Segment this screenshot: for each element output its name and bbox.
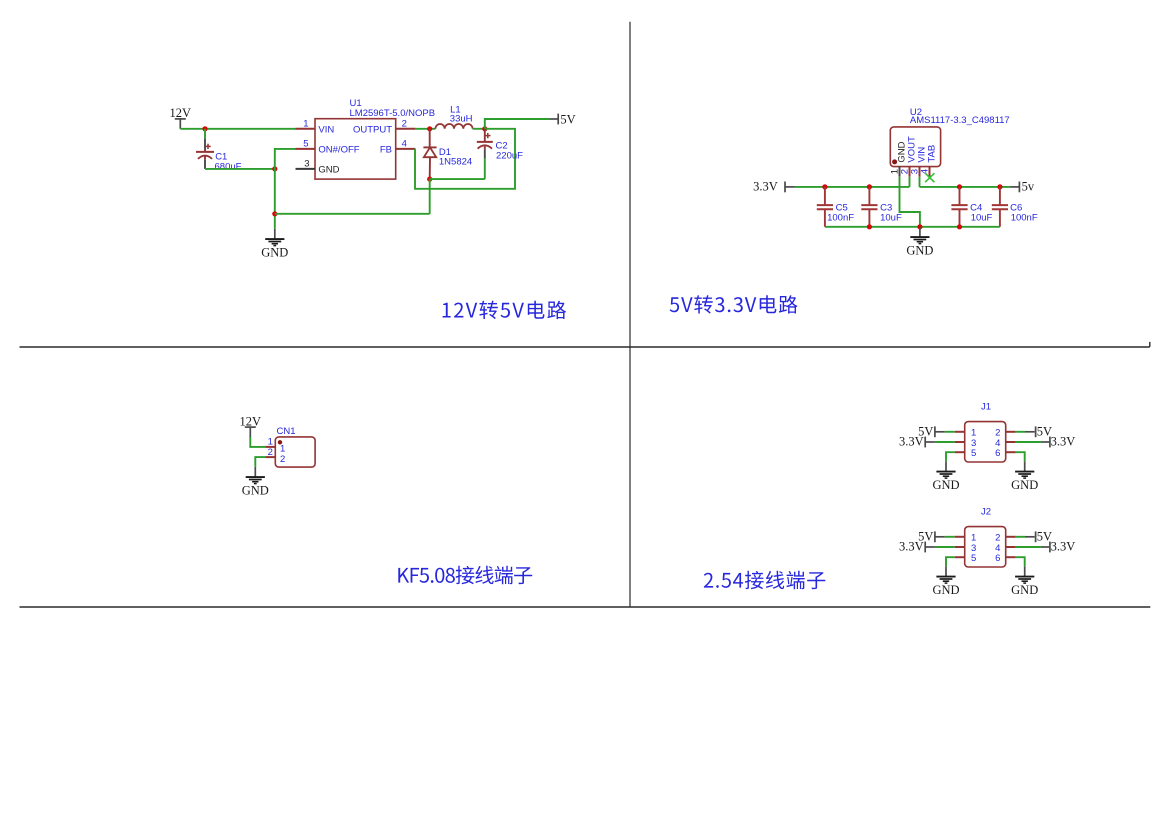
svg-text:12V: 12V [170,106,192,120]
ground J2 right [1011,566,1038,597]
svg-text:680uF: 680uF [215,161,242,172]
svg-text:OUTPUT: OUTPUT [353,124,392,135]
wire 3.3V bus [795,186,910,188]
svg-text:VIN: VIN [318,124,334,135]
capacitor C2 [477,129,493,159]
svg-text:100nF: 100nF [827,212,854,223]
wire 3.3V to J1 pin3 [935,441,955,443]
junction C4 bottom [957,224,962,229]
junction C6 top [997,184,1002,189]
wire U2 GND pin to ground node [900,177,920,227]
net flag 3.3V J1 right [1041,435,1075,449]
wire L1 to output node [473,128,485,130]
wire J1 pin4 to 3.3V [1016,441,1041,443]
ground J1 right [1011,461,1038,492]
wire output to 5V flag [485,119,550,129]
svg-text:220uF: 220uF [496,151,523,162]
diode D1 1N5824 [423,129,436,179]
svg-text:12V: 12V [240,414,262,428]
wire 12V to U1 VIN [180,128,295,130]
svg-text:1: 1 [303,118,308,129]
U2 pin 4 stub [929,167,931,178]
svg-text:GND: GND [318,164,339,175]
svg-text:3.3V: 3.3V [1051,540,1076,554]
svg-text:GND: GND [1011,478,1038,492]
U2 pin 2 stub [909,167,911,177]
wire CN1 pin2 to ground [255,457,265,467]
junction ground node [917,224,922,229]
svg-text:5: 5 [303,138,308,149]
J2 pin 5 [955,556,965,558]
pin 5 ON/OFF [296,148,316,150]
junction C3 bottom [867,224,872,229]
svg-text:GND: GND [932,583,959,597]
junction 12V C1 [202,126,207,131]
J1 pin 3 [955,441,965,443]
svg-text:100nF: 100nF [1011,212,1038,223]
net flag 3.3V J2 right [1041,540,1075,554]
ground J2 left [932,566,959,597]
svg-text:10uF: 10uF [880,212,902,223]
connector J1 [965,422,1006,462]
junction ground rail [272,211,277,216]
ground CN1 [242,467,269,498]
svg-text:GND: GND [242,483,269,497]
no-connect cross pin4 [925,173,934,182]
net flag 12V CN1 [240,414,262,437]
J1 pin 1 [955,431,965,433]
net flag 5V [550,112,576,126]
J2 pin 4 [1006,546,1016,548]
svg-text:3.3V: 3.3V [753,179,778,193]
divider vertical [629,22,631,607]
svg-text:3: 3 [304,158,309,169]
pin 1 VIN [296,128,316,130]
wire D1 to C2 bottom [430,178,485,180]
svg-text:5: 5 [971,553,976,564]
capacitor C3 [861,187,877,227]
svg-text:10uF: 10uF [971,212,993,223]
net flag 5V J2 right [1025,530,1052,544]
J1 pin 5 [955,451,965,453]
CN1 pin1 marker dot [278,440,282,444]
junction C4 top [957,184,962,189]
wire J2 pin2 to 5V [1016,536,1025,538]
IC U1 LM2596 [315,119,396,179]
svg-text:3.3V: 3.3V [899,435,924,449]
svg-text:2: 2 [280,454,285,465]
svg-text:33uH: 33uH [450,114,473,125]
junction output node [482,126,487,131]
junction switch node [427,126,432,131]
divider horizontal upper [20,346,1150,348]
svg-text:4: 4 [402,138,407,149]
svg-text:5V: 5V [560,112,575,126]
svg-text:TAB: TAB [926,145,937,163]
capacitor C6 [992,187,1008,227]
ground J1 left [932,461,959,492]
title KF5.08 [398,566,532,584]
net flag 3.3V [753,179,794,193]
pin 2 OUTPUT [396,128,416,130]
net flag 5V J1 right [1025,425,1052,439]
divider upper right tick [1149,342,1151,347]
pin 4 FB [396,148,416,150]
svg-text:GND: GND [261,245,288,259]
svg-text:CN1: CN1 [277,426,296,437]
svg-text:5v: 5v [1022,179,1035,193]
connector J2 [965,527,1006,567]
wire 5v bus [920,186,1010,188]
connector CN1 [275,437,315,467]
svg-text:J2: J2 [981,507,991,518]
J2 pin 3 [955,546,965,548]
svg-text:GND: GND [932,478,959,492]
svg-text:FB: FB [380,144,392,155]
wire 5V to J1 pin1 [945,431,955,433]
svg-text:AMS1117-3.3_C498117: AMS1117-3.3_C498117 [910,115,1010,126]
svg-text:LM2596T-5.0/NOPB: LM2596T-5.0/NOPB [350,108,436,119]
svg-text:5: 5 [971,448,976,459]
wire J2 pin4 to 3.3V [1016,546,1041,548]
svg-text:GND: GND [906,243,933,257]
J2 pin 1 [955,536,965,538]
J1 pin 6 [1006,451,1016,453]
wire OUTPUT to L1 [415,128,435,130]
wire ground bus [825,226,1000,228]
wire ON/OFF down to ground [275,149,296,229]
wire 3.3V to J2 pin3 [935,546,955,548]
wire 5V to J2 pin1 [945,536,955,538]
junction C3 top [867,184,872,189]
wire J2 pin5 to ground [946,557,955,566]
J1 pin 2 [1006,431,1016,433]
svg-text:2: 2 [402,118,407,129]
net flag 5V J1 left [918,425,944,439]
CN1 pin 1 [265,446,275,448]
svg-text:1N5824: 1N5824 [439,157,472,168]
U2 pin 1 stub [899,167,901,177]
ground circuit1 [261,229,288,260]
title 5V to 3.3V [670,295,798,313]
svg-text:2: 2 [268,447,273,458]
wire ground rail to D1 [275,213,430,215]
wire J2 pin6 to ground [1016,557,1025,566]
net flag 5V J2 left [918,530,944,544]
IC U2 AMS1117 [890,127,940,167]
net flag 5v [1010,179,1035,193]
wire 12V to CN1 pin1 [250,437,265,447]
J2 pin 6 [1006,556,1016,558]
svg-text:3.3V: 3.3V [899,540,924,554]
capacitor C5 [817,187,833,227]
divider horizontal lower [20,606,1151,608]
junction D1 anode [427,177,432,182]
svg-text:GND: GND [1011,583,1038,597]
junction GND C1 [272,166,277,171]
svg-text:ON#/OFF: ON#/OFF [318,144,359,155]
net flag 3.3V J1 left [899,435,935,449]
junction C5 top [822,184,827,189]
wire C2 bottom [484,159,486,179]
U2 pin1 marker dot [892,159,897,164]
wire FB loop [415,129,515,189]
capacitor C1 [196,129,214,169]
svg-text:3.3V: 3.3V [1051,435,1076,449]
ground circuit2 [906,227,933,258]
title 2.54 [704,571,826,589]
wire C1 to GND node [205,168,275,170]
net flag 12V [170,106,192,129]
svg-text:J1: J1 [981,402,991,413]
CN1 pin 2 [265,456,275,458]
title 12V to 5V [443,301,566,319]
svg-text:6: 6 [995,553,1000,564]
J1 pin 4 [1006,441,1016,443]
wire D1 to ground rail [429,179,431,214]
J2 pin 2 [1006,536,1016,538]
wire VIN down [919,177,921,187]
wire J1 pin2 to 5V [1016,431,1025,433]
wire J1 pin5 to ground [946,452,955,461]
capacitor C4 [951,187,967,227]
pin 3 GND [296,168,316,170]
svg-text:6: 6 [995,448,1000,459]
U2 pin 3 stub [919,167,921,177]
wire J1 pin6 to ground [1016,452,1025,461]
wire VOUT down [909,177,911,187]
net flag 3.3V J2 left [899,540,935,554]
inductor L1 [435,124,472,129]
